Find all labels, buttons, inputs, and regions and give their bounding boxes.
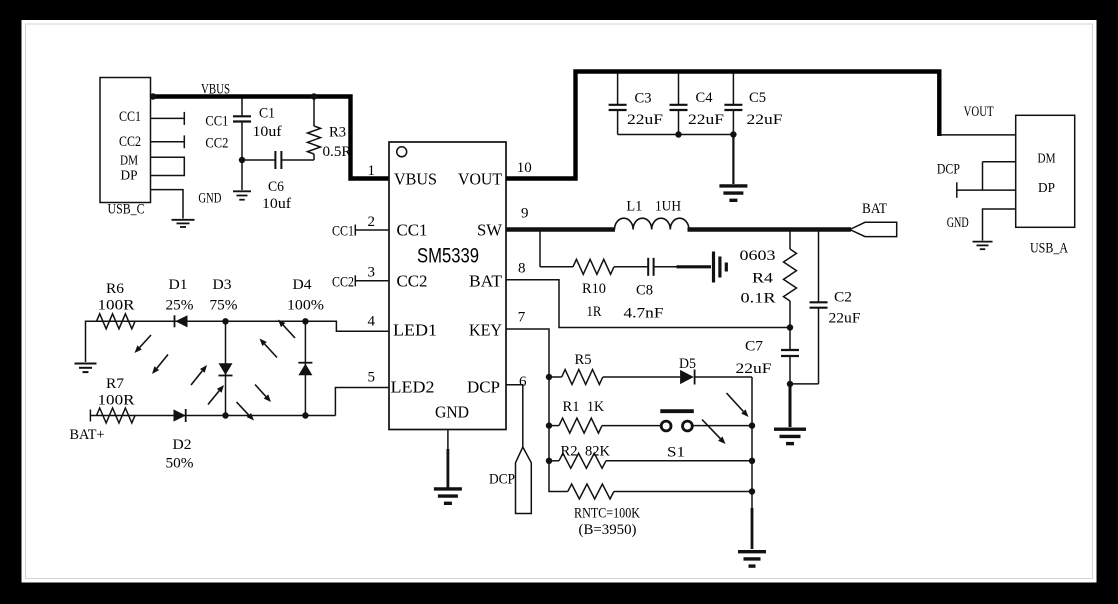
diode D4 (LED, vertical): [304, 321, 306, 415]
svg-text:R7: R7: [106, 376, 125, 392]
node R2: [749, 458, 755, 464]
switch S1: [660, 411, 702, 460]
connector BAT: [850, 222, 897, 236]
op-amp U1 SM5339 body: [389, 142, 506, 430]
svg-text:DP: DP: [121, 168, 138, 183]
wire S1 to bus: [702, 425, 752, 427]
wire R1 to S1: [602, 425, 661, 427]
connector USB_A: [1016, 115, 1075, 256]
svg-text:BAT: BAT: [862, 201, 887, 217]
ground (R6): [75, 363, 97, 365]
wire VOUT to USB_A: [938, 134, 1016, 136]
svg-text:GND: GND: [435, 403, 469, 422]
svg-text:KEY: KEY: [469, 321, 502, 340]
capacitor C1: [241, 98, 243, 116]
node C4 rail: [675, 131, 681, 137]
svg-text:CC2: CC2: [119, 134, 141, 150]
svg-text:1K: 1K: [587, 399, 604, 415]
svg-text:22uF: 22uF: [688, 112, 724, 128]
wire cap rail: [618, 134, 734, 136]
pin 3 stub CC2: [355, 280, 389, 282]
ground (C8, sideways): [712, 252, 715, 283]
wire right bus: [751, 377, 753, 510]
svg-text:100R: 100R: [98, 393, 135, 409]
wire LED top rail: [86, 321, 390, 362]
ground (bus): [738, 550, 766, 553]
wire R2 to bus: [606, 460, 752, 462]
pin CC2 stub (USB_C): [151, 141, 185, 143]
svg-text:L1: L1: [626, 199, 642, 215]
svg-text:C7: C7: [745, 339, 764, 355]
svg-text:4: 4: [368, 314, 376, 330]
capacitor C2: [818, 231, 820, 302]
svg-text:R3: R3: [329, 125, 346, 141]
diode D1 (LED): [174, 315, 176, 327]
arrow D1 a: [140, 335, 151, 348]
node BAT/R4/C7: [787, 324, 793, 330]
wire VBUS bus (thick): [151, 97, 390, 179]
wire KEY pin 7 bus: [506, 329, 568, 492]
ground (C3C4C5): [719, 184, 747, 187]
svg-text:10uf: 10uf: [262, 196, 291, 212]
svg-text:C3: C3: [635, 91, 652, 107]
wire BAT pin 8: [506, 280, 787, 328]
wire SW to R10: [539, 231, 541, 267]
pins DM/DP tie (USB_C): [151, 157, 185, 175]
svg-text:D5: D5: [679, 356, 696, 372]
svg-text:1: 1: [368, 163, 376, 179]
svg-text:RNTC=100K: RNTC=100K: [574, 506, 640, 522]
svg-text:BAT: BAT: [469, 272, 502, 291]
arrow D3 a: [191, 371, 202, 385]
pin CC1 stub (USB_C): [151, 117, 185, 119]
wire rail to ground: [732, 135, 734, 185]
svg-text:DM: DM: [120, 153, 138, 168]
diode D2 (LED): [174, 409, 186, 421]
svg-text:CC1: CC1: [205, 113, 228, 129]
node D5/R1: [749, 422, 755, 428]
wire D5 to bus: [695, 376, 752, 378]
svg-text:SM5339: SM5339: [417, 245, 479, 268]
svg-text:75%: 75%: [210, 298, 238, 314]
svg-text:8: 8: [518, 261, 526, 277]
svg-text:USB_C: USB_C: [108, 202, 145, 218]
svg-text:USB_A: USB_A: [1030, 241, 1068, 257]
node C1/C6: [239, 157, 245, 163]
svg-text:1R: 1R: [587, 304, 602, 320]
svg-text:VOUT: VOUT: [964, 104, 994, 120]
svg-text:DM: DM: [1038, 152, 1056, 167]
node RNTC: [749, 488, 755, 494]
pin DP stub / DCP tie (USB_A): [957, 189, 1016, 191]
svg-text:DCP: DCP: [467, 378, 500, 397]
svg-text:CC1: CC1: [119, 109, 141, 125]
ground (U1): [434, 487, 462, 490]
node C7/C2/gnd: [787, 381, 793, 387]
wire SW (thick, pin 9): [506, 227, 615, 231]
svg-text:100%: 100%: [287, 298, 324, 314]
wire USB_A GND pin: [983, 209, 1016, 241]
node VBUS at R3: [311, 93, 317, 99]
svg-text:C5: C5: [749, 90, 766, 106]
arrow D3 b: [208, 391, 219, 405]
node VBUS at USB_C: [150, 93, 156, 99]
svg-text:25%: 25%: [166, 298, 194, 314]
svg-text:GND: GND: [947, 215, 969, 231]
capacitor C8: [614, 266, 648, 268]
svg-text:D3: D3: [213, 277, 232, 293]
wire U1 GND pin to ground: [447, 430, 449, 451]
svg-text:VBUS: VBUS: [394, 170, 437, 189]
wire USB_C GND pin: [151, 190, 184, 219]
wire VOUT bus (thick): [506, 72, 939, 179]
diode D5: [680, 370, 694, 384]
wire BAT+ rail: [90, 415, 335, 417]
svg-text:SW: SW: [477, 221, 502, 240]
svg-text:4.7nF: 4.7nF: [624, 306, 664, 322]
capacitor C4: [678, 74, 680, 105]
svg-text:0.1R: 0.1R: [741, 291, 776, 307]
svg-text:GND: GND: [198, 191, 221, 207]
node R2 tap: [546, 458, 552, 464]
pin 2 stub CC1: [355, 229, 389, 231]
svg-text:22uF: 22uF: [747, 112, 783, 128]
svg-text:LED2: LED2: [391, 378, 435, 397]
svg-text:C2: C2: [834, 290, 852, 306]
svg-text:0.5R: 0.5R: [323, 144, 352, 160]
svg-text:9: 9: [521, 206, 529, 222]
svg-text:R10: R10: [582, 281, 606, 297]
svg-text:DCP: DCP: [489, 472, 515, 488]
svg-text:C4: C4: [696, 90, 713, 106]
svg-text:BAT+: BAT+: [70, 427, 105, 443]
svg-text:CC1: CC1: [332, 224, 354, 240]
wire DCP pin 6: [506, 385, 523, 447]
arrow D2 b: [237, 402, 249, 415]
resistor R6: [97, 314, 136, 329]
resistor R10: [573, 259, 614, 274]
capacitor C7: [789, 328, 791, 351]
svg-text:D2: D2: [173, 437, 192, 453]
wire C1 to ground: [241, 160, 243, 190]
node R1 tap: [546, 422, 552, 428]
svg-text:R4: R4: [752, 271, 774, 287]
ground (C7): [774, 428, 806, 431]
arrow S1 actuator: [702, 420, 720, 439]
svg-text:CC2: CC2: [205, 136, 228, 152]
connector DCP test point: [516, 447, 532, 514]
capacitor C6: [242, 159, 275, 161]
svg-text:C8: C8: [636, 283, 653, 299]
wire RNTC to bus: [614, 491, 752, 493]
wire C7 node to ground: [789, 384, 792, 427]
svg-text:R5: R5: [575, 352, 592, 368]
svg-text:2: 2: [368, 214, 376, 230]
wire R5 to D5: [603, 376, 680, 378]
svg-text:CC1: CC1: [397, 221, 428, 240]
svg-text:VBUS: VBUS: [201, 82, 230, 98]
connector USB_C: [100, 78, 151, 218]
node C5 rail: [730, 131, 736, 137]
resistor R3: [313, 97, 315, 127]
pin DM stub (USB_A): [983, 161, 1016, 163]
svg-text:5: 5: [368, 370, 376, 386]
wire LED2 jog: [335, 388, 389, 416]
capacitor C5: [732, 74, 734, 105]
capacitor C3: [617, 74, 619, 105]
svg-text:100R: 100R: [98, 298, 135, 314]
diode D3 (LED, vertical): [225, 321, 227, 415]
svg-text:C1: C1: [259, 106, 275, 122]
svg-text:1UH: 1UH: [655, 199, 681, 215]
ground (USB_C): [172, 219, 195, 221]
svg-text:10uf: 10uf: [253, 124, 282, 140]
arrow D4 a: [265, 344, 277, 358]
svg-text:22uF: 22uF: [627, 112, 663, 128]
svg-text:CC2: CC2: [397, 272, 428, 291]
svg-text:C6: C6: [268, 179, 284, 195]
svg-text:D1: D1: [169, 277, 188, 293]
svg-text:(B=3950): (B=3950): [579, 522, 637, 538]
svg-text:R1: R1: [563, 399, 580, 415]
svg-text:22uF: 22uF: [829, 311, 861, 327]
svg-text:3: 3: [368, 265, 376, 281]
svg-text:CC2: CC2: [332, 274, 354, 290]
svg-text:0603: 0603: [740, 248, 776, 264]
resistor R2: [549, 460, 559, 462]
svg-text:S1: S1: [667, 445, 685, 461]
resistor R7: [97, 408, 136, 423]
resistor R1: [549, 425, 559, 427]
ground (C1): [233, 190, 251, 192]
svg-text:82K: 82K: [585, 444, 610, 460]
resistor RNTC: [568, 484, 614, 499]
wire SW to BAT (thick): [688, 227, 852, 231]
svg-text:10: 10: [517, 160, 532, 176]
wire C8 to ground (thick): [677, 265, 712, 268]
ground (USB_A): [973, 241, 993, 243]
svg-text:7: 7: [518, 310, 526, 326]
svg-text:R2: R2: [561, 444, 578, 460]
arrow D2 a: [255, 385, 266, 397]
svg-text:VOUT: VOUT: [458, 170, 502, 189]
svg-text:D4: D4: [293, 277, 313, 293]
arrow S1 press: [727, 393, 744, 412]
inductor L1: [615, 218, 689, 229]
node R5 tap: [546, 374, 552, 380]
svg-text:LED1: LED1: [393, 321, 437, 340]
resistor R5: [549, 376, 562, 378]
svg-text:DCP: DCP: [937, 161, 960, 177]
resistor R4: [789, 231, 791, 249]
arrow D1 b: [157, 355, 168, 369]
arrow D4 b: [283, 325, 295, 338]
svg-text:50%: 50%: [166, 456, 194, 472]
svg-text:DP: DP: [1038, 181, 1055, 196]
svg-text:R6: R6: [106, 281, 125, 297]
svg-text:22uF: 22uF: [736, 361, 772, 377]
